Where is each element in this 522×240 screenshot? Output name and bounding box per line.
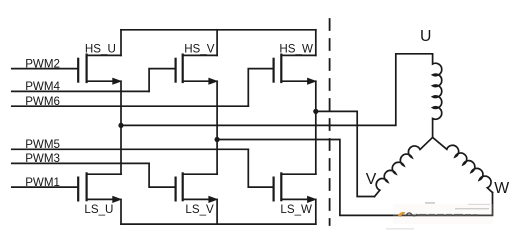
watermark [386, 202, 493, 229]
wire PWM1 input line [12, 186, 77, 188]
svg-text:PWM3: PWM3 [25, 152, 60, 165]
svg-text:LS_W: LS_W [280, 203, 312, 216]
wire HS_V drain riser [216, 30, 218, 56]
inductor winding W [433, 137, 493, 192]
wire HS_W source to node W [315, 81, 317, 111]
wire PWM5 riser to LS_W gate [248, 149, 272, 187]
svg-text:LS_U: LS_U [84, 203, 113, 216]
wire PWM4 input line [12, 90, 149, 92]
wire HS_U drain riser [120, 30, 122, 56]
svg-text:PWM1: PWM1 [25, 176, 60, 189]
wire node V to LS_V drain [216, 140, 218, 175]
wire PWM4 riser to HS_V gate [149, 69, 175, 92]
node W junction [313, 109, 318, 114]
wire LS_W source to bottom rail [315, 199, 317, 224]
wire PWM3 riser to LS_V gate [149, 163, 175, 187]
transistor HS_U [78, 55, 122, 85]
inductor winding V [375, 137, 433, 196]
wire HS_U source to node U [120, 81, 122, 125]
svg-text:PWM4: PWM4 [25, 80, 60, 93]
node U junction [118, 123, 123, 128]
svg-text:V: V [366, 171, 377, 188]
wire HS_W drain riser [315, 30, 317, 56]
wire PWM5 input line [12, 148, 249, 150]
wire phase W to winding V [316, 111, 375, 196]
svg-text:W: W [494, 180, 509, 197]
wire phase U to motor winding U [121, 54, 433, 126]
transistor LS_U [78, 173, 122, 203]
wire node W to LS_W drain [315, 111, 317, 174]
svg-text:HS_V: HS_V [184, 42, 215, 55]
wire phase V to motor bottom [217, 140, 492, 216]
wire PWM3 input line [12, 162, 149, 164]
inductor winding U [433, 54, 442, 138]
svg-text:PWM5: PWM5 [25, 138, 60, 151]
svg-text:PWM6: PWM6 [25, 95, 60, 108]
svg-text:PWM2: PWM2 [25, 57, 60, 70]
wire PWM6 riser to HS_W gate [248, 69, 272, 107]
wire bottom rail [121, 223, 316, 225]
wire top DC rail [121, 29, 316, 31]
svg-text:HS_U: HS_U [85, 42, 116, 55]
transistor HS_V [176, 55, 219, 85]
transistor LS_V [176, 173, 219, 203]
transistor LS_W [274, 173, 317, 203]
svg-text:HS_W: HS_W [279, 42, 313, 55]
node V junction [215, 137, 220, 142]
dashed separator line [329, 19, 331, 225]
wire LS_U source to bottom rail [120, 199, 122, 224]
wire PWM6 input line [12, 105, 249, 107]
svg-text:LS_V: LS_V [185, 203, 214, 216]
wire PWM2 input line [12, 68, 77, 70]
svg-text:U: U [420, 28, 431, 45]
transistor HS_W [274, 55, 317, 85]
wire LS_V source to bottom rail [216, 199, 218, 224]
wire node U to LS_U drain [120, 125, 122, 174]
wire HS_V source to node V [216, 81, 218, 139]
